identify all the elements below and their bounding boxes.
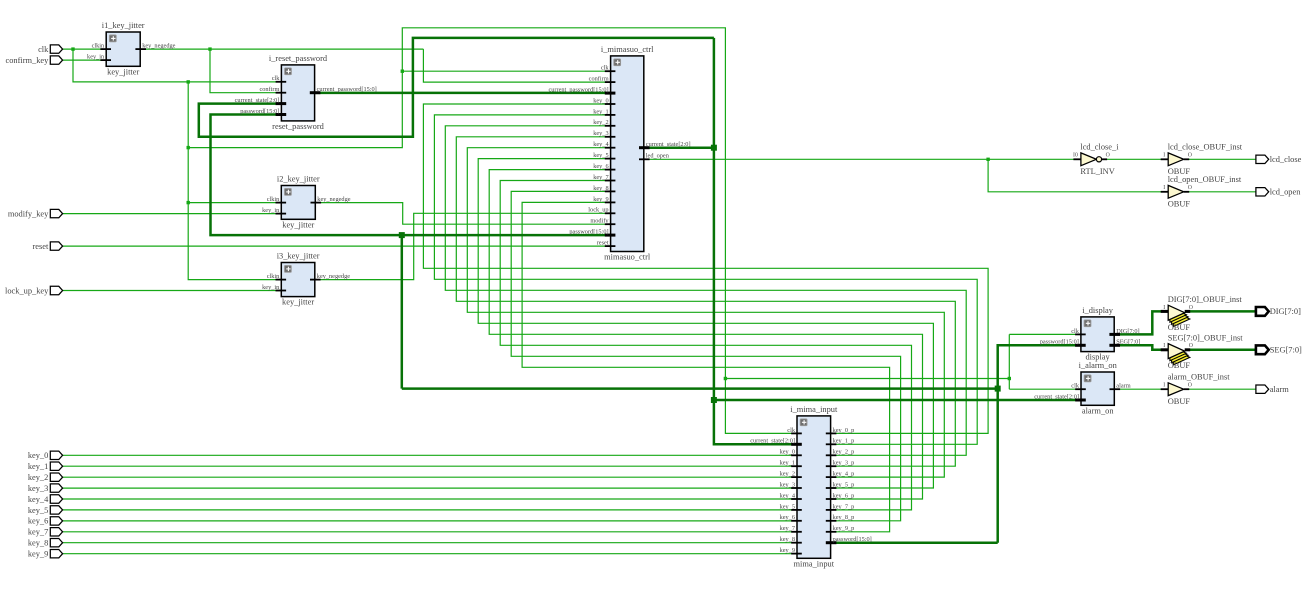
svg-text:confirm: confirm [259, 86, 279, 93]
svg-text:reset: reset [32, 242, 48, 251]
svg-text:key_0: key_0 [593, 97, 608, 104]
svg-text:key_jitter: key_jitter [282, 220, 314, 229]
wire lcd_close_i to OBUF [1102, 158, 1169, 160]
wire key_negedge net from i2 (modify) [315, 203, 610, 225]
bus current_state[2:0] [199, 38, 1081, 444]
inverter lcd_close_i (RTL_INV) [1073, 143, 1119, 176]
bus current_password[15:0] [315, 92, 611, 95]
svg-text:DIG[7:0]: DIG[7:0] [1116, 328, 1139, 335]
input port key_5 [28, 506, 63, 515]
svg-text:OBUF: OBUF [1168, 361, 1191, 370]
svg-text:key_5_p: key_5_p [833, 481, 855, 488]
wire key_7_p net (mima_input to mimasuo_ctrl) [500, 181, 911, 510]
block i_mimasuo_ctrl (mimasuo_ctrl) [548, 45, 690, 262]
block i_reset_password (reset_password) [235, 54, 377, 131]
svg-text:current_state[2:0]: current_state[2:0] [750, 438, 795, 445]
input port key_1 [28, 462, 63, 471]
svg-text:password[15:0]: password[15:0] [569, 229, 608, 236]
svg-text:key_7: key_7 [780, 525, 795, 532]
svg-text:modify: modify [590, 218, 609, 225]
svg-text:clk: clk [1071, 328, 1080, 335]
svg-text:key_3: key_3 [28, 484, 48, 493]
bus password[15:0] [211, 115, 1081, 543]
svg-text:key_9: key_9 [780, 547, 795, 554]
block i1_key_jitter (key_jitter) [87, 21, 176, 76]
svg-text:current_state[2:0]: current_state[2:0] [235, 97, 280, 104]
svg-text:DIG[7:0]_OBUF_inst: DIG[7:0]_OBUF_inst [1168, 295, 1243, 304]
wire clk net [63, 28, 1081, 434]
wire key_9_p net (mima_input to mimasuo_ctrl) [522, 202, 890, 531]
bus DIG[7:0] [1114, 311, 1256, 334]
svg-text:key_negedge: key_negedge [317, 196, 350, 203]
svg-text:lcd_close: lcd_close [1270, 155, 1302, 164]
svg-text:I: I [1163, 185, 1165, 191]
svg-text:I: I [1163, 305, 1165, 311]
svg-text:led_open: led_open [646, 153, 670, 160]
svg-text:alarm: alarm [1116, 383, 1130, 390]
wire key_0_p net (mima_input to mimasuo_ctrl) [423, 104, 988, 433]
svg-text:key_7: key_7 [593, 174, 608, 181]
input port confirm_key [6, 56, 63, 65]
svg-text:key_9: key_9 [28, 550, 48, 559]
svg-text:key_1_p: key_1_p [833, 438, 855, 445]
svg-text:clkin: clkin [92, 43, 105, 50]
svg-text:key_jitter: key_jitter [107, 67, 139, 76]
svg-text:key_6: key_6 [28, 517, 48, 526]
svg-text:i_display: i_display [1082, 306, 1114, 315]
svg-text:key_1: key_1 [593, 108, 608, 115]
wire reset net [63, 245, 611, 247]
wire lock_up_key net [63, 290, 282, 292]
svg-text:key_4: key_4 [28, 495, 49, 504]
svg-text:key_0_p: key_0_p [833, 427, 855, 434]
buffer SEG[7:0]_OBUF_inst (OBUF bus) [1161, 333, 1244, 370]
svg-text:SEG[7:0]: SEG[7:0] [1116, 339, 1140, 346]
svg-text:i_reset_password: i_reset_password [269, 54, 328, 63]
block i_alarm_on (alarm_on) [1034, 361, 1131, 415]
svg-text:password[15:0]: password[15:0] [1040, 339, 1079, 346]
svg-text:key_1: key_1 [780, 460, 795, 467]
svg-text:OBUF: OBUF [1168, 397, 1191, 406]
svg-text:key_3_p: key_3_p [833, 460, 855, 467]
wire led_open net [644, 158, 1168, 192]
svg-text:key_5: key_5 [28, 506, 48, 515]
wire modify_key net [63, 213, 282, 215]
output port lcd_close [1256, 155, 1302, 164]
svg-text:key_3: key_3 [780, 481, 795, 488]
svg-text:O: O [1106, 153, 1110, 159]
svg-text:I: I [1163, 343, 1165, 349]
svg-text:key_2: key_2 [593, 119, 608, 126]
svg-text:lock_up_key: lock_up_key [5, 286, 49, 295]
wire key_6_p net (mima_input to mimasuo_ctrl) [489, 170, 922, 499]
input port key_3 [28, 484, 63, 493]
buffer alarm_OBUF_inst (OBUF) [1161, 373, 1231, 406]
svg-text:DIG[7:0]: DIG[7:0] [1270, 307, 1301, 316]
output port DIG[7:0] [1256, 307, 1301, 316]
buffer lcd_open_OBUF_inst (OBUF) [1161, 175, 1242, 208]
block i_display (display) [1040, 306, 1141, 362]
svg-text:clk: clk [38, 45, 49, 54]
block i3_key_jitter (key_jitter) [262, 252, 350, 307]
svg-text:key_4: key_4 [780, 492, 796, 499]
svg-text:key_4_p: key_4_p [833, 471, 855, 478]
input port key_8 [28, 539, 63, 548]
svg-text:O: O [1189, 343, 1193, 349]
svg-text:lcd_close_i: lcd_close_i [1080, 143, 1119, 152]
input port key_4 [28, 495, 63, 504]
svg-text:key_in: key_in [262, 207, 280, 214]
svg-text:key_0: key_0 [780, 449, 795, 456]
svg-text:alarm_OBUF_inst: alarm_OBUF_inst [1168, 373, 1231, 382]
svg-text:key_2: key_2 [780, 471, 795, 478]
svg-text:key_8_p: key_8_p [833, 514, 855, 521]
output port lcd_open [1256, 188, 1301, 197]
wire key_6 input net [63, 520, 797, 522]
wire key_9 input net [63, 553, 797, 555]
svg-text:O: O [1189, 305, 1193, 311]
block i2_key_jitter (key_jitter) [262, 175, 351, 230]
wire key_4 input net [63, 498, 797, 500]
wire lcd_open output net [1184, 191, 1256, 193]
svg-text:i3_key_jitter: i3_key_jitter [277, 252, 320, 261]
svg-text:SEG[7:0]_OBUF_inst: SEG[7:0]_OBUF_inst [1168, 333, 1244, 342]
svg-text:i2_key_jitter: i2_key_jitter [277, 175, 320, 184]
svg-text:clk: clk [787, 427, 796, 434]
svg-text:current_password[15:0]: current_password[15:0] [317, 86, 377, 93]
wire key_5_p net (mima_input to mimasuo_ctrl) [478, 159, 933, 488]
svg-text:mimasuo_ctrl: mimasuo_ctrl [604, 253, 651, 262]
buffer DIG[7:0]_OBUF_inst (OBUF bus) [1161, 295, 1243, 332]
wire lcd_close output net [1184, 158, 1256, 160]
buffer lcd_close_OBUF_inst (OBUF) [1161, 143, 1243, 176]
svg-text:key_1: key_1 [28, 462, 48, 471]
wire alarm output net [1184, 388, 1256, 390]
svg-text:lock_up: lock_up [588, 207, 608, 214]
bus SEG[7:0] [1114, 345, 1256, 350]
svg-text:I: I [1163, 383, 1165, 389]
output port SEG[7:0] [1256, 345, 1302, 354]
svg-text:clkin: clkin [267, 273, 280, 280]
svg-text:reset_password: reset_password [272, 122, 324, 131]
wire key_7 input net [63, 531, 797, 533]
svg-text:key_6_p: key_6_p [833, 492, 855, 499]
wire key_0 input net [63, 454, 797, 456]
input port modify_key [8, 209, 63, 218]
svg-text:mima_input: mima_input [794, 559, 835, 568]
svg-text:i_mima_input: i_mima_input [790, 405, 838, 414]
input port key_2 [28, 473, 63, 482]
svg-text:clk: clk [272, 75, 281, 82]
svg-text:O: O [1188, 383, 1192, 389]
svg-text:key_9: key_9 [593, 196, 608, 203]
input port lock_up_key [5, 286, 63, 295]
svg-text:lcd_open_OBUF_inst: lcd_open_OBUF_inst [1168, 175, 1242, 184]
svg-text:i_mimasuo_ctrl: i_mimasuo_ctrl [601, 45, 654, 54]
svg-text:key_4: key_4 [593, 141, 609, 148]
svg-text:key_7: key_7 [28, 528, 48, 537]
wire key_2_p net (mima_input to mimasuo_ctrl) [445, 126, 966, 456]
wire key_1_p net (mima_input to mimasuo_ctrl) [434, 115, 977, 444]
wire key_5 input net [63, 509, 797, 511]
wire confirm_key net [63, 59, 107, 61]
wire key_2 input net [63, 476, 797, 478]
input port key_7 [28, 528, 63, 537]
svg-text:password[15:0]: password[15:0] [240, 108, 279, 115]
svg-text:key_8: key_8 [28, 539, 48, 548]
input port clk [38, 45, 63, 54]
wire key_4_p net (mima_input to mimasuo_ctrl) [467, 148, 944, 477]
svg-text:key_8: key_8 [780, 536, 795, 543]
svg-text:clk: clk [601, 65, 610, 72]
input port key_6 [28, 517, 63, 526]
svg-text:key_negedge: key_negedge [142, 43, 175, 50]
svg-text:key_jitter: key_jitter [282, 298, 314, 307]
wire key_3 input net [63, 487, 797, 489]
svg-text:key_negedge: key_negedge [317, 273, 350, 280]
svg-text:key_8: key_8 [593, 185, 608, 192]
svg-text:lcd_close_OBUF_inst: lcd_close_OBUF_inst [1168, 143, 1243, 152]
svg-text:key_9_p: key_9_p [833, 525, 855, 532]
svg-text:SEG[7:0]: SEG[7:0] [1270, 346, 1302, 355]
svg-text:i_alarm_on: i_alarm_on [1079, 361, 1118, 370]
wire key_negedge net from i1 (confirm) [140, 47, 610, 92]
wire key_1 input net [63, 465, 797, 467]
svg-text:key_5: key_5 [593, 152, 608, 159]
svg-text:key_6: key_6 [780, 514, 795, 521]
svg-text:clk: clk [1071, 383, 1080, 390]
svg-text:key_in: key_in [262, 284, 280, 291]
wire key_negedge net from i3 (lock_up) [315, 213, 611, 279]
svg-text:O: O [1188, 185, 1192, 191]
svg-text:lcd_open: lcd_open [1270, 188, 1302, 197]
svg-text:confirm_key: confirm_key [6, 56, 50, 65]
wire key_8 input net [63, 542, 797, 544]
svg-text:alarm_on: alarm_on [1082, 406, 1114, 415]
svg-text:modify_key: modify_key [8, 209, 49, 218]
svg-text:key_2: key_2 [28, 473, 48, 482]
input port reset [32, 242, 62, 251]
svg-text:OBUF: OBUF [1168, 323, 1191, 332]
svg-text:password[15:0]: password[15:0] [833, 536, 872, 543]
svg-text:OBUF: OBUF [1168, 199, 1191, 208]
svg-text:clkin: clkin [267, 196, 280, 203]
svg-text:key_6: key_6 [593, 163, 608, 170]
block i_mima_input (mima_input) [750, 405, 872, 568]
svg-text:key_in: key_in [87, 54, 105, 61]
svg-text:O: O [1188, 153, 1192, 159]
svg-text:key_7_p: key_7_p [833, 503, 855, 510]
svg-text:key_2_p: key_2_p [833, 449, 855, 456]
svg-text:key_5: key_5 [780, 503, 795, 510]
svg-text:current_state[2:0]: current_state[2:0] [646, 141, 691, 148]
svg-text:current_password[15:0]: current_password[15:0] [548, 87, 608, 94]
svg-text:key_0: key_0 [28, 451, 48, 460]
svg-text:current_state[2:0]: current_state[2:0] [1034, 393, 1079, 400]
svg-text:i1_key_jitter: i1_key_jitter [102, 21, 145, 30]
svg-text:key_3: key_3 [593, 130, 608, 137]
wire alarm net [1114, 388, 1168, 390]
wire key_3_p net (mima_input to mimasuo_ctrl) [456, 137, 955, 466]
svg-text:RTL_INV: RTL_INV [1080, 167, 1114, 176]
output port alarm [1256, 385, 1289, 394]
svg-text:I0: I0 [1073, 153, 1078, 159]
svg-text:confirm: confirm [589, 76, 609, 83]
svg-text:alarm: alarm [1270, 385, 1290, 394]
input port key_0 [28, 451, 63, 460]
input port key_9 [28, 550, 63, 559]
svg-text:reset: reset [597, 240, 609, 247]
svg-text:I: I [1163, 153, 1165, 159]
wire key_8_p net (mima_input to mimasuo_ctrl) [511, 191, 900, 520]
